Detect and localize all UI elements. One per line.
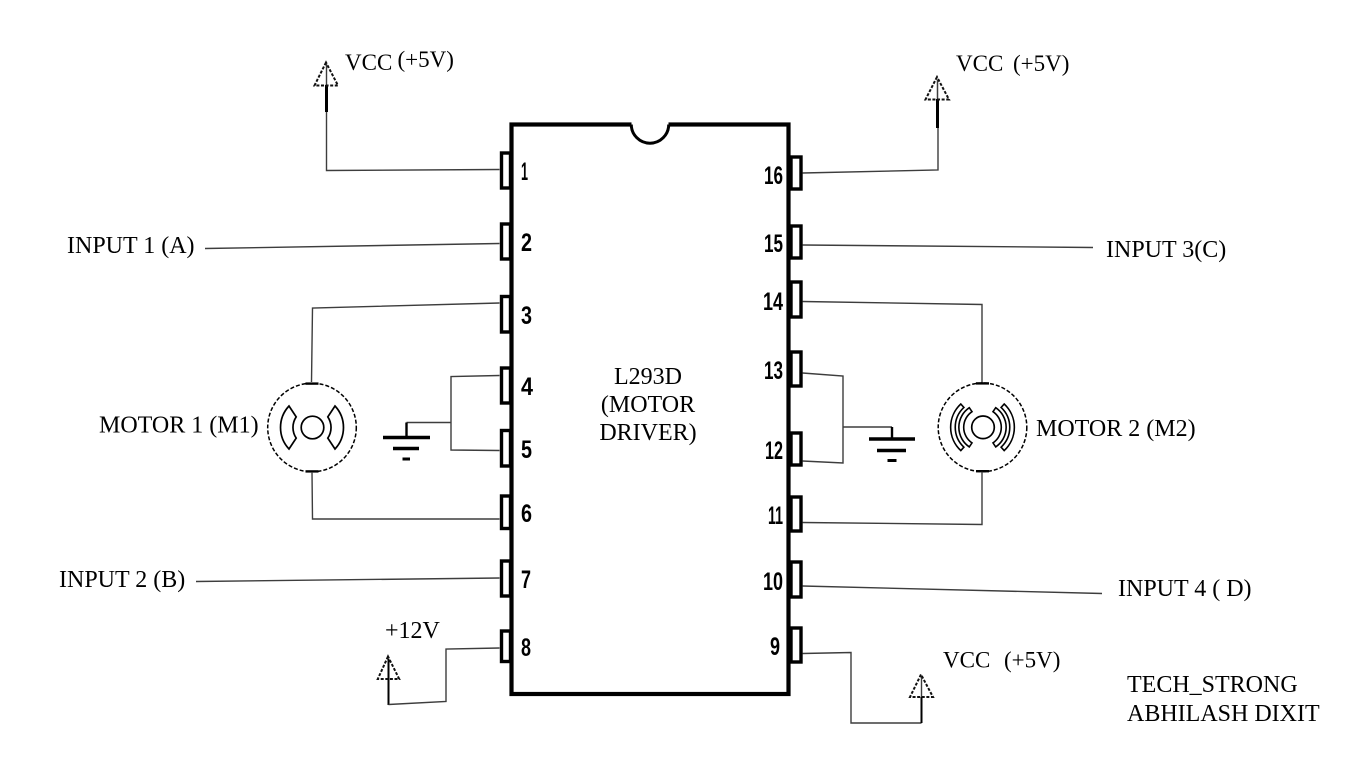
motor M2: [938, 383, 1027, 472]
wire ground 1 link: [407, 422, 452, 424]
pin 5: [502, 431, 533, 467]
svg-text:11: 11: [768, 502, 783, 530]
svg-text:6: 6: [521, 500, 532, 528]
svg-text:+12V: +12V: [385, 618, 441, 644]
ground symbol GND1: [383, 423, 430, 460]
wire ground 2 link: [843, 426, 892, 428]
pin 11: [768, 497, 801, 531]
svg-text:(MOTOR: (MOTOR: [601, 392, 695, 418]
wire motor M1 bottom to pin 6: [312, 472, 500, 519]
svg-text:15: 15: [764, 230, 783, 258]
wire pin 15 to INPUT 3: [803, 245, 1094, 248]
svg-text:TECH_STRONG: TECH_STRONG: [1127, 672, 1298, 698]
svg-text:2: 2: [521, 229, 532, 257]
power symbol VCC arrow (pin 1): [315, 63, 339, 113]
svg-text:(+5V): (+5V): [398, 47, 454, 72]
IC U1 label L293D (MOTOR DRIVER): [599, 364, 696, 446]
power symbol +12V arrow: [378, 657, 399, 706]
svg-text:INPUT 1 (A): INPUT 1 (A): [67, 233, 195, 259]
svg-text:ABHILASH DIXIT: ABHILASH DIXIT: [1127, 701, 1320, 727]
pin 8: [502, 631, 532, 662]
svg-text:9: 9: [770, 633, 780, 661]
svg-text:7: 7: [521, 566, 531, 594]
pin 16: [764, 157, 801, 190]
ground symbol GND2: [869, 427, 915, 461]
svg-text:8: 8: [521, 634, 531, 662]
pin 6: [502, 496, 533, 529]
pin 3: [502, 297, 533, 333]
wire pin 13 to pin 12 bracket: [803, 373, 844, 463]
power symbol VCC arrow (pin 9): [910, 675, 933, 724]
wire pin 16 to VCC arrow: [803, 126, 939, 173]
wire pin 1 to VCC arrow: [327, 64, 500, 171]
wire pin 14 to motor M2 top: [803, 302, 983, 385]
wire pin 9 to VCC arrow: [803, 653, 922, 724]
svg-text:INPUT 2 (B): INPUT 2 (B): [59, 567, 185, 593]
svg-text:4: 4: [521, 373, 533, 401]
svg-text:16: 16: [764, 162, 783, 190]
pin 7: [502, 561, 532, 596]
svg-text:(+5V): (+5V): [1004, 648, 1060, 673]
wire pin 10 to INPUT 4: [803, 586, 1103, 594]
svg-text:VCC: VCC: [956, 51, 1003, 76]
svg-text:12: 12: [765, 437, 783, 465]
pin 15: [764, 226, 801, 258]
svg-text:MOTOR 2 (M2): MOTOR 2 (M2): [1036, 416, 1196, 442]
wire pin 4 to pin 5 bracket: [451, 376, 500, 451]
wire +12V arrow to pin 8: [389, 648, 500, 705]
pin 13: [764, 352, 801, 386]
svg-text:VCC: VCC: [943, 648, 990, 673]
IC U1 L293D body: [512, 125, 789, 695]
svg-text:VCC: VCC: [345, 50, 392, 75]
svg-text:(+5V): (+5V): [1013, 51, 1069, 76]
label VCC (+5V) bottom-right: [943, 648, 1060, 673]
wire motor M2 bottom to pin 11: [803, 472, 983, 525]
svg-text:3: 3: [521, 302, 532, 330]
power symbol VCC arrow (pin 16): [926, 77, 950, 128]
pin 12: [765, 433, 801, 465]
svg-text:MOTOR 1 (M1): MOTOR 1 (M1): [99, 413, 259, 439]
label VCC (+5V) top-left: [345, 47, 454, 75]
pin 2: [502, 224, 533, 259]
svg-text:DRIVER): DRIVER): [599, 420, 696, 446]
svg-text:10: 10: [763, 568, 783, 596]
svg-text:L293D: L293D: [614, 364, 682, 390]
pin 10: [763, 562, 801, 597]
label VCC (+5V) top-right: [956, 51, 1069, 76]
pin 14: [763, 282, 801, 317]
wire pin 3 to motor M1 top: [312, 303, 500, 382]
wire INPUT 1 to pin 2: [205, 244, 500, 249]
wire INPUT 2 to pin 7: [196, 578, 500, 582]
svg-text:14: 14: [763, 288, 783, 316]
svg-text:1: 1: [521, 158, 528, 186]
pin 9: [770, 628, 801, 662]
svg-text:13: 13: [764, 357, 783, 385]
svg-text:5: 5: [521, 436, 532, 464]
motor M1: [268, 383, 357, 472]
svg-text:INPUT 4 ( D): INPUT 4 ( D): [1118, 576, 1252, 602]
svg-text:INPUT 3(C): INPUT 3(C): [1106, 237, 1226, 263]
pin 1: [502, 153, 529, 188]
IC U1 notch: [631, 122, 668, 143]
pin 4: [502, 368, 534, 403]
